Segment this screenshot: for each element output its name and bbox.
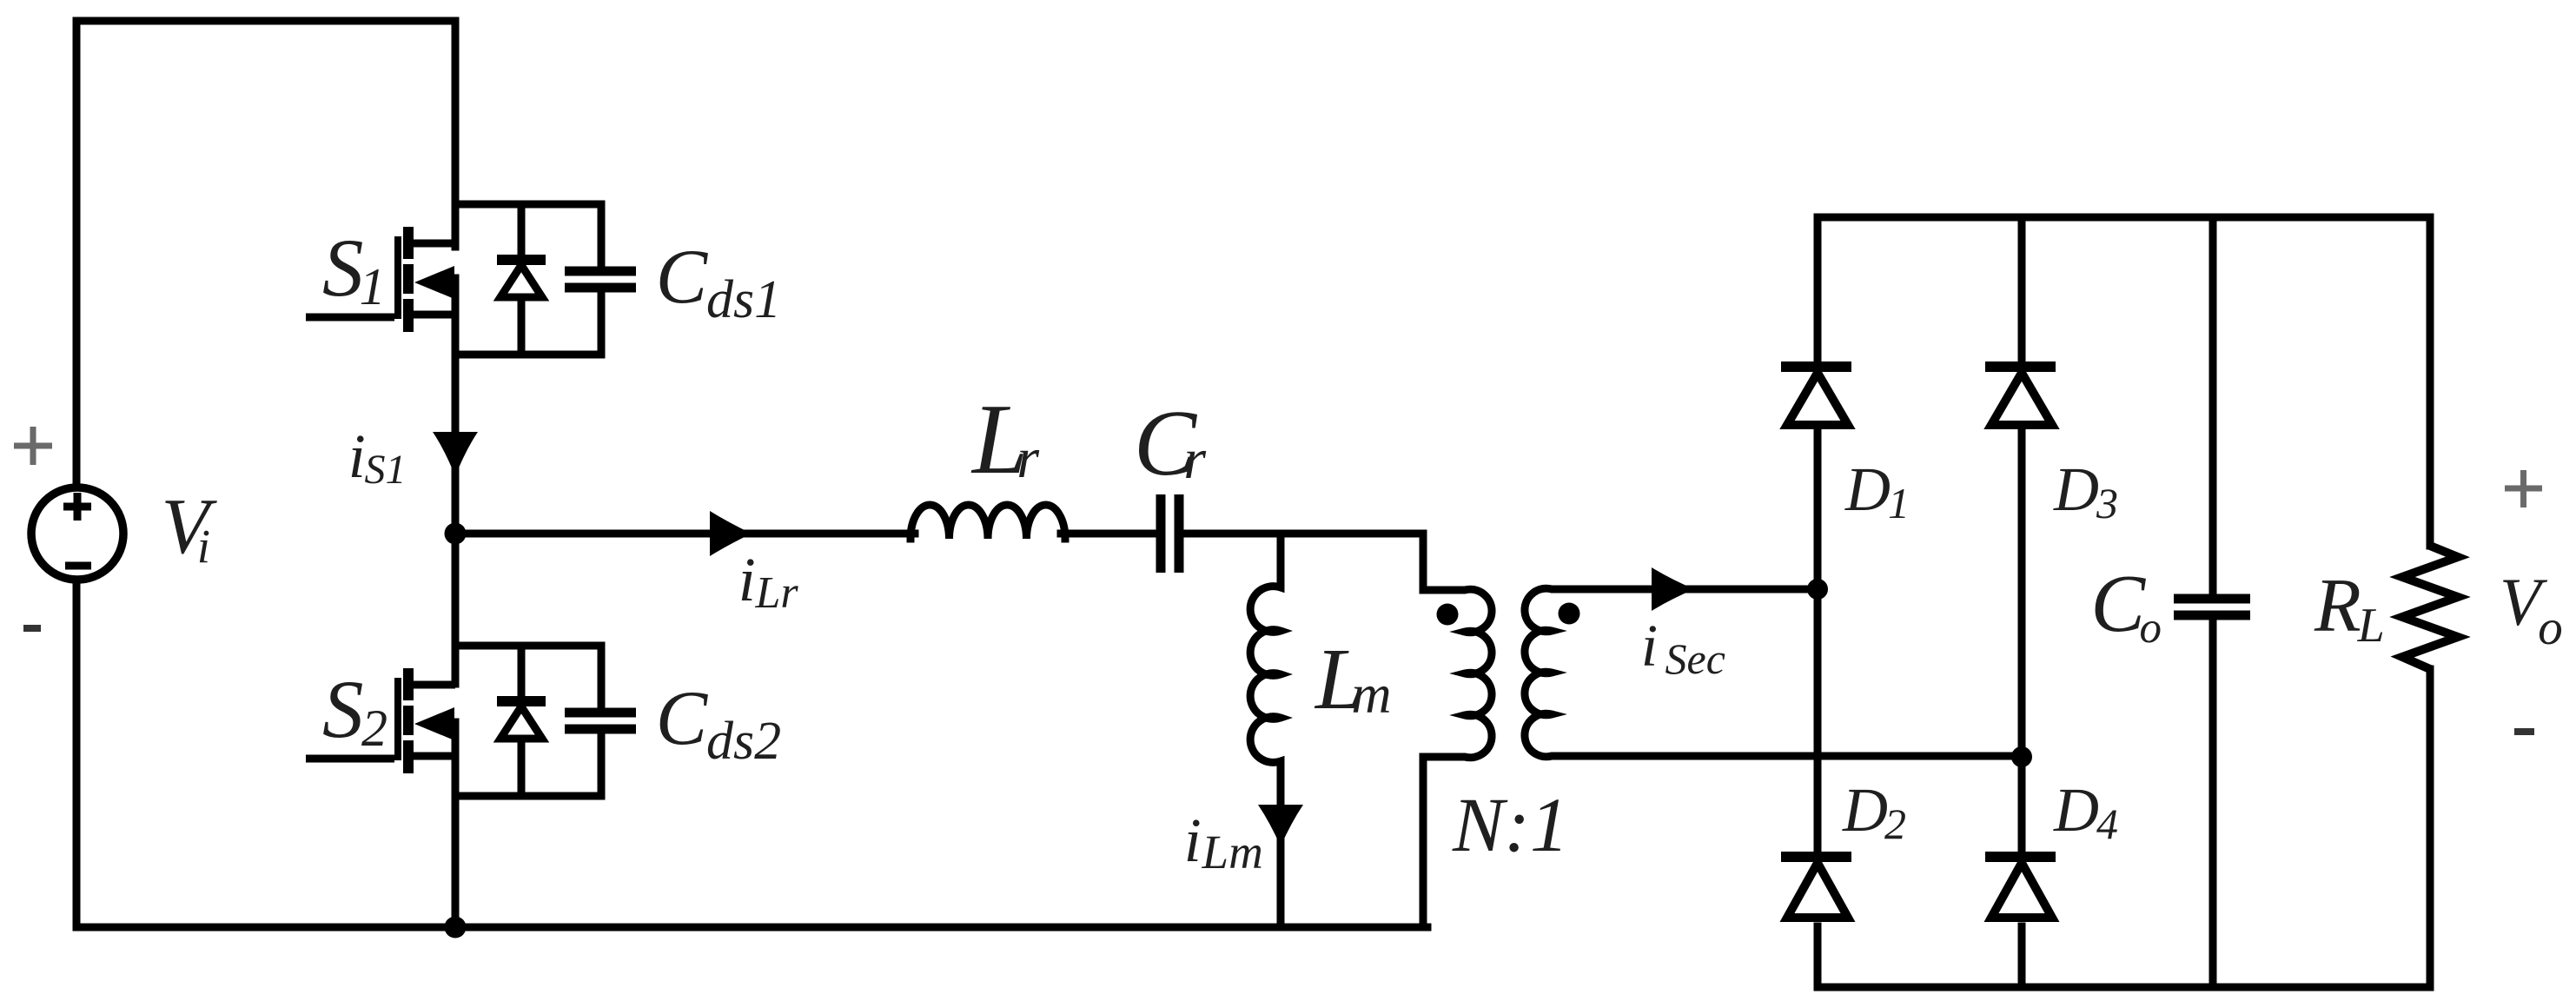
svg-text:C: C [2090,559,2146,649]
svg-text:i: i [197,520,210,573]
svg-text:D: D [1842,775,1888,845]
svg-text:r: r [1183,428,1206,491]
svg-text:2: 2 [1884,799,1906,848]
svg-text:Sec: Sec [1665,634,1725,683]
svg-text:r: r [1016,427,1039,490]
svg-text:i: i [1184,806,1202,875]
svg-text:S: S [322,663,364,755]
svg-text:i: i [1641,613,1658,679]
svg-text:S1: S1 [365,447,407,493]
svg-text:1: 1 [1888,479,1910,527]
svg-text:4: 4 [2096,799,2118,848]
svg-text:D: D [2053,454,2099,524]
svg-text:i: i [348,421,366,491]
svg-text:N:1: N:1 [1452,783,1569,868]
svg-text:o: o [2538,600,2563,655]
svg-text:D: D [1844,454,1891,524]
svg-text:ds1: ds1 [706,270,781,329]
svg-text:D: D [2053,775,2099,845]
svg-text:C: C [656,235,709,320]
svg-text:L: L [2357,599,2385,653]
svg-text:i: i [738,545,756,614]
svg-text:C: C [656,676,709,761]
svg-text:o: o [2140,604,2162,653]
svg-text:ds2: ds2 [706,712,781,771]
svg-text:2: 2 [361,700,387,757]
svg-text:S: S [322,222,364,314]
svg-text:m: m [1351,663,1391,725]
svg-text:Lm: Lm [1202,826,1263,879]
svg-text:Lr: Lr [755,568,799,618]
svg-text:3: 3 [2096,479,2118,527]
svg-text:1: 1 [360,258,386,315]
svg-text:R: R [2314,564,2361,648]
